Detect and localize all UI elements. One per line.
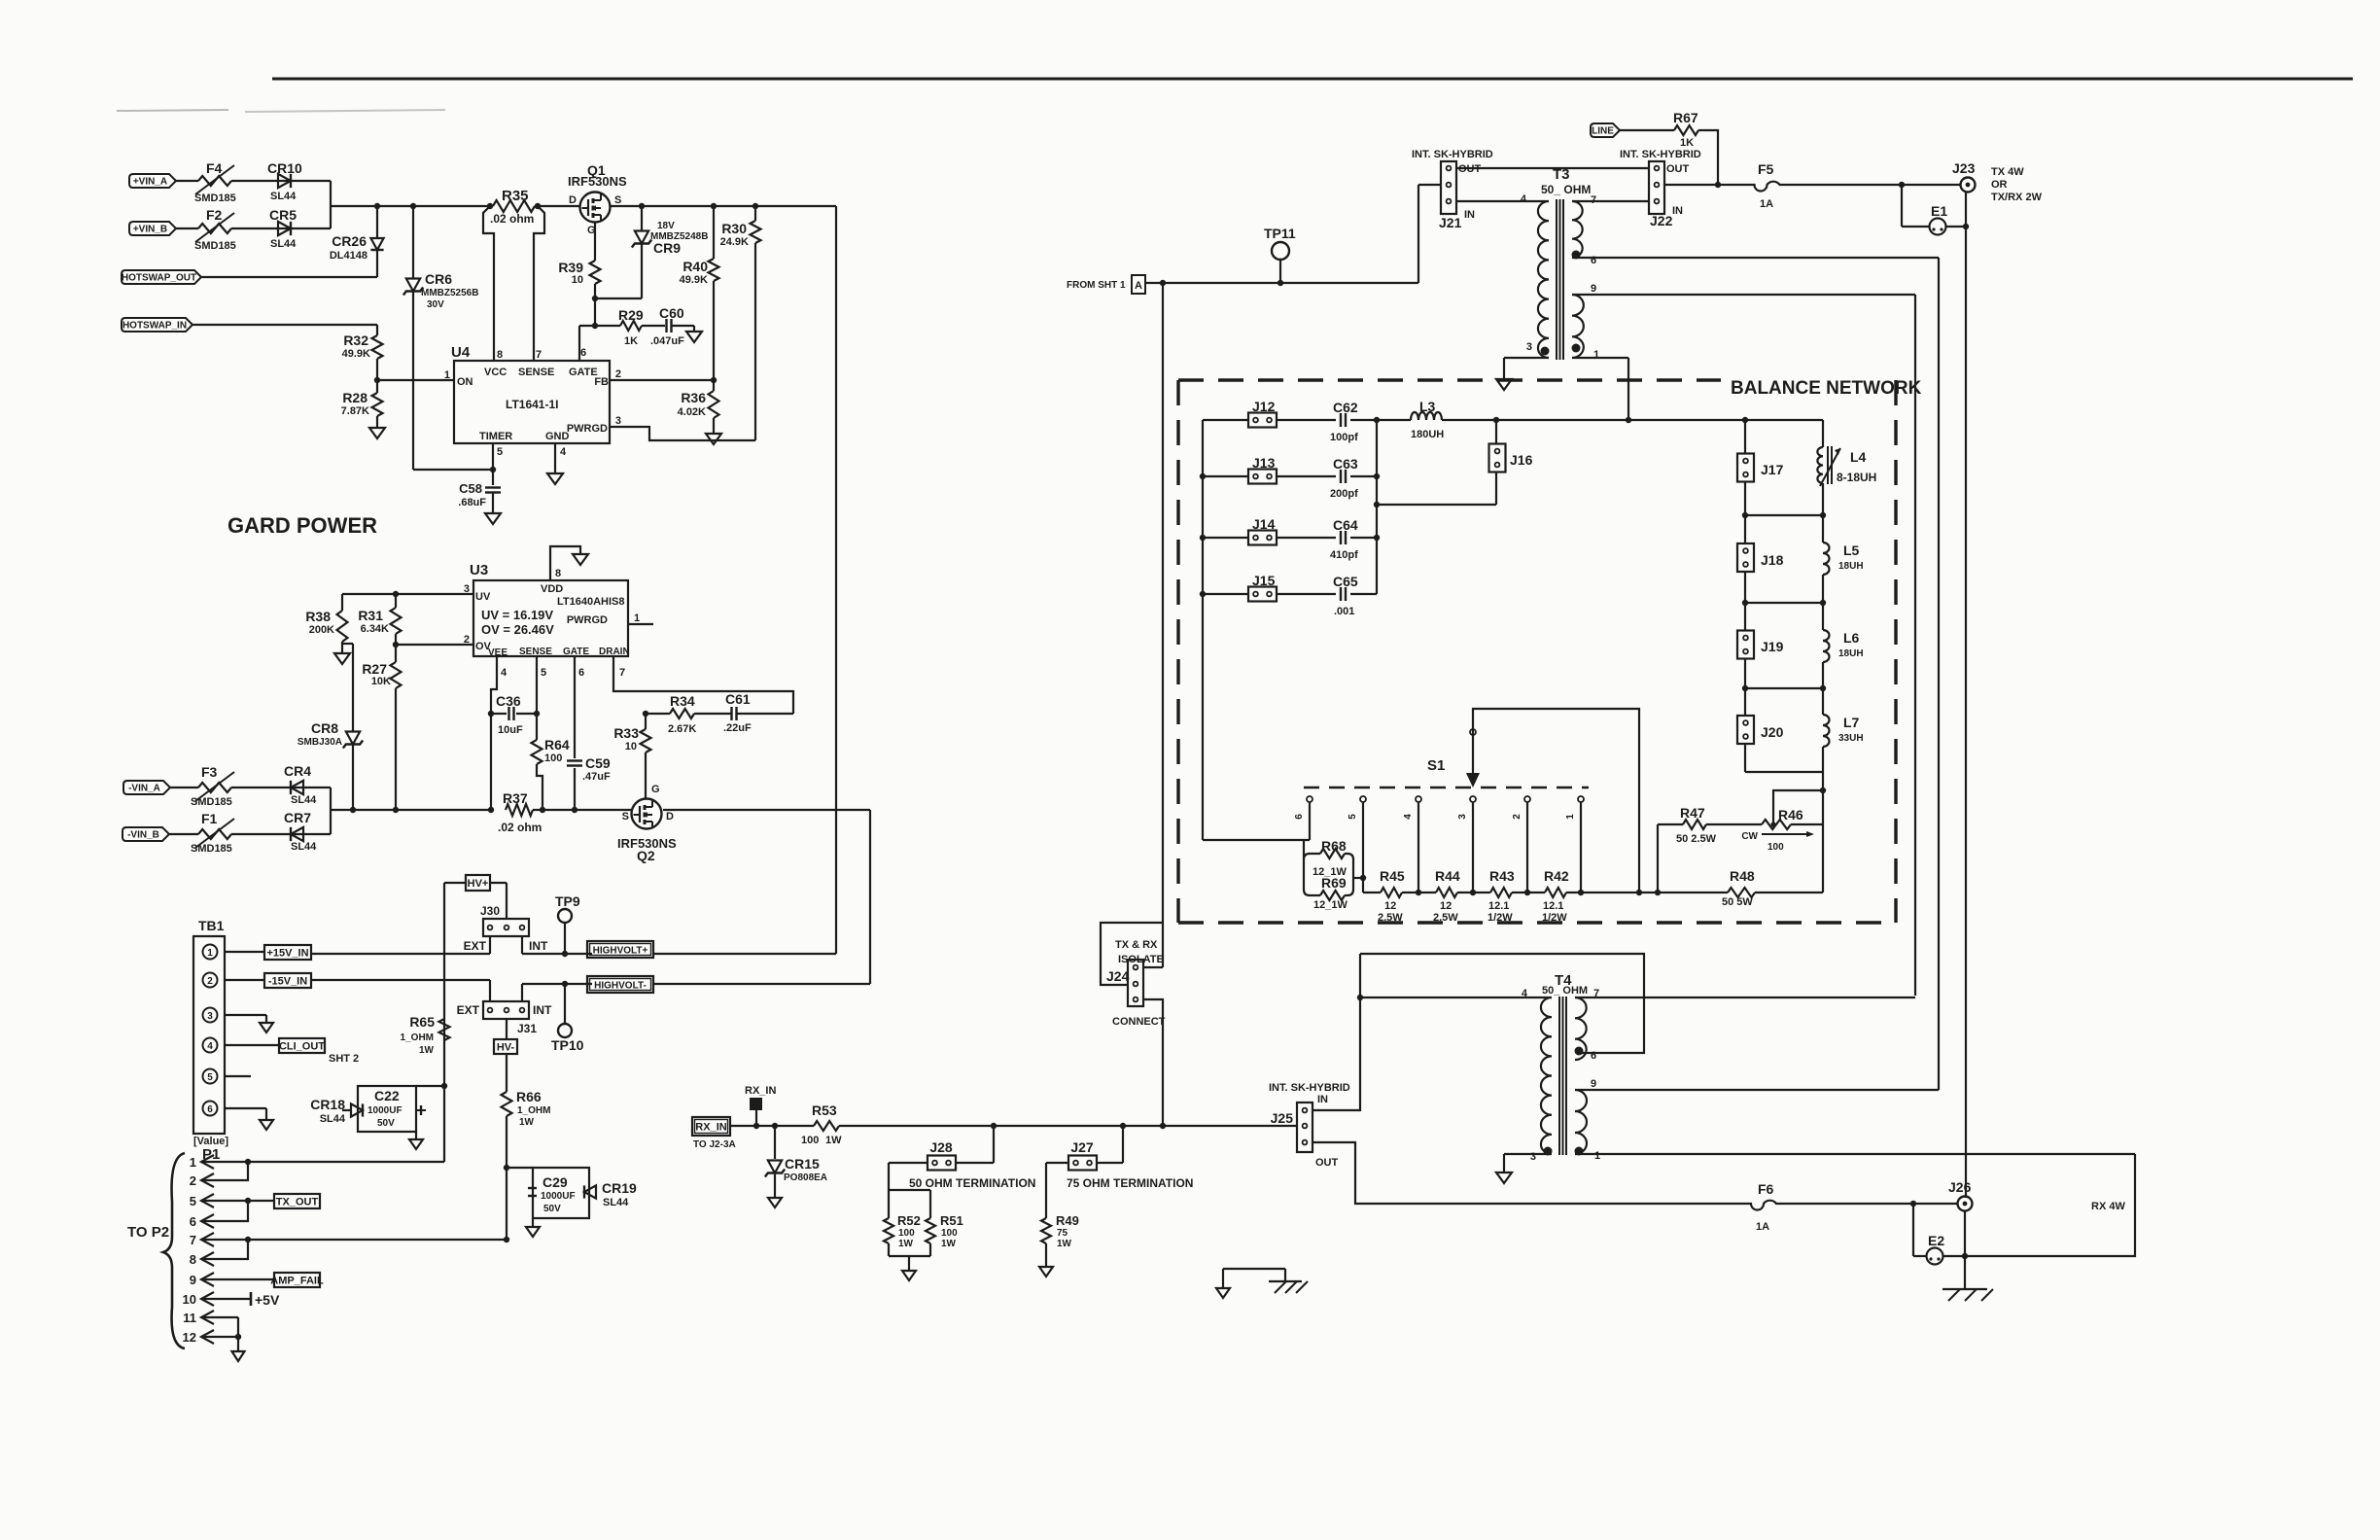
net label HV- (506, 1019, 507, 1039)
svg-text:11: 11 (183, 1311, 196, 1325)
wire J25 OUT to F6 (1312, 1142, 1750, 1204)
svg-text:J21: J21 (1439, 215, 1462, 230)
svg-text:2: 2 (1512, 814, 1522, 820)
svg-text:OUT: OUT (1315, 1157, 1339, 1169)
svg-text:R67: R67 (1673, 110, 1698, 125)
svg-text:FB: FB (594, 376, 609, 388)
svg-text:4.02K: 4.02K (678, 406, 706, 418)
svg-text:TX & RX: TX & RX (1115, 939, 1158, 951)
svg-text:F6: F6 (1758, 1181, 1774, 1197)
svg-text:4: 4 (560, 446, 567, 458)
svg-text:CLI_OUT: CLI_OUT (279, 1041, 325, 1053)
svg-text:CR26: CR26 (332, 233, 367, 249)
ground chassis (1942, 1288, 1987, 1290)
wire (672, 325, 694, 327)
wire T4 pin6 loop (1360, 954, 1644, 1053)
svg-text:1000UF: 1000UF (541, 1191, 576, 1202)
wire J21 IN to T3 pin4 (1456, 200, 1545, 202)
svg-text:1W: 1W (941, 1239, 957, 1249)
svg-text:5: 5 (541, 667, 546, 679)
svg-text:OR: OR (1991, 179, 2008, 191)
svg-text:R28: R28 (342, 390, 367, 405)
diode CR10 (278, 180, 331, 182)
top border rule (272, 78, 2353, 81)
wire pin2 / net label -15V_IN (225, 979, 264, 981)
svg-text:6: 6 (578, 667, 584, 679)
svg-text:1K: 1K (624, 335, 638, 347)
svg-text:HV+: HV+ (468, 878, 489, 890)
fuse F5 (1753, 182, 1781, 192)
svg-text:12.1: 12.1 (1488, 900, 1509, 912)
wire UV pin3 (342, 593, 473, 595)
ground (485, 513, 501, 524)
wire (231, 180, 278, 182)
svg-text:TP10: TP10 (551, 1037, 584, 1053)
svg-text:410pf: 410pf (1330, 549, 1358, 561)
wire T4 pin1 loop (1965, 1154, 2135, 1256)
svg-text:+15V_IN: +15V_IN (266, 948, 308, 960)
wire HV+ left down (444, 882, 466, 884)
svg-text:1000UF: 1000UF (367, 1105, 402, 1116)
wire (642, 325, 665, 327)
svg-text:+VIN_B: +VIN_B (133, 225, 167, 235)
svg-text:C59: C59 (585, 755, 611, 771)
resistor R31 (391, 608, 402, 634)
wire chain bottom (1745, 771, 1823, 773)
jumper J31 (483, 1001, 529, 1019)
svg-text:GATE: GATE (563, 647, 589, 657)
wire joining VIN_A/VIN_B (330, 181, 332, 228)
jumper J17 (1744, 420, 1746, 454)
svg-text:CR4: CR4 (284, 763, 311, 779)
resistor R49 (1041, 1218, 1051, 1243)
wire to F5 (1718, 184, 1753, 186)
resistor R30 (754, 206, 756, 221)
capacitor C29 w/ diode CR19 (507, 1167, 533, 1169)
resistor R45 (1363, 892, 1381, 893)
wire +V vertical to HIGHVOLT+ (835, 206, 837, 954)
svg-text:GND: GND (545, 431, 570, 442)
svg-text:200pf: 200pf (1330, 488, 1358, 500)
svg-text:J25: J25 (1271, 1110, 1294, 1126)
svg-text:J28: J28 (929, 1139, 953, 1155)
svg-text:R43: R43 (1489, 868, 1515, 884)
svg-text:RX_IN: RX_IN (745, 1085, 776, 1097)
svg-text:100: 100 (898, 1228, 915, 1239)
connector E1 (1901, 185, 1903, 227)
pin 6 (1572, 251, 1581, 260)
svg-text:CW: CW (1741, 831, 1758, 842)
svg-text:200K: 200K (309, 624, 334, 636)
svg-text:1W: 1W (419, 1045, 435, 1056)
svg-text:ON: ON (457, 376, 473, 388)
svg-text:.47uF: .47uF (582, 771, 611, 783)
svg-text:CR8: CR8 (311, 720, 338, 736)
svg-text:D: D (569, 194, 577, 206)
svg-text:1: 1 (634, 612, 640, 624)
wire -V vertical to HIGHVOLT- (869, 810, 871, 984)
svg-text:4: 4 (1522, 988, 1528, 999)
jumper J27 75 ohm termination (1120, 1123, 1126, 1129)
svg-text:1W: 1W (825, 1135, 842, 1146)
svg-text:SL44: SL44 (320, 1113, 346, 1125)
ground pair near T4 (1223, 1268, 1285, 1270)
svg-text:R44: R44 (1435, 868, 1460, 884)
svg-text:1W: 1W (1057, 1239, 1072, 1249)
svg-text:J17: J17 (1761, 462, 1784, 477)
resistor R64 (532, 740, 542, 764)
svg-text:GARD POWER: GARD POWER (227, 513, 377, 538)
ground (369, 428, 385, 438)
svg-text:C61: C61 (725, 691, 751, 707)
zener CR9 (641, 206, 643, 230)
svg-text:C29: C29 (542, 1174, 568, 1190)
wire GATE pin6 / capacitor C59 (574, 656, 576, 758)
wire pin1 / net label +15V_IN (225, 951, 264, 953)
svg-text:J13: J13 (1252, 455, 1276, 471)
wire row J13 (1203, 475, 1248, 477)
wire R29 node (579, 325, 620, 327)
ground (232, 1351, 245, 1361)
svg-text:R69: R69 (1321, 875, 1347, 891)
net label +VIN_A (129, 174, 176, 188)
svg-text:R30: R30 (721, 221, 747, 236)
resistor R53 (814, 1121, 839, 1131)
svg-text:TB1: TB1 (198, 918, 225, 933)
svg-text:10uF: 10uF (498, 724, 523, 736)
svg-text:SL44: SL44 (603, 1197, 629, 1208)
svg-text:VEE: VEE (488, 647, 507, 658)
wire (176, 227, 198, 229)
wire INT leg to HIGHVOLT- (521, 984, 523, 1001)
fuse F2 (198, 224, 231, 233)
svg-text:J24: J24 (1106, 968, 1130, 984)
svg-text:2: 2 (464, 634, 470, 646)
svg-text:SMD185: SMD185 (191, 796, 232, 808)
ground (573, 554, 588, 565)
svg-text:8: 8 (497, 349, 503, 361)
svg-text:5: 5 (1347, 814, 1358, 820)
svg-text:.02 ohm: .02 ohm (490, 212, 534, 226)
switch S1 contact 3 (1470, 796, 1476, 802)
svg-text:3: 3 (207, 1011, 213, 1022)
wire TIMER / capacitor C58 (492, 443, 494, 485)
pin 7 (1572, 200, 1649, 202)
ground (686, 332, 702, 342)
wire (231, 833, 291, 835)
svg-text:CR18: CR18 (310, 1097, 345, 1112)
wire cap bus vertical (1376, 420, 1378, 594)
test point TP11 (1272, 242, 1289, 260)
svg-text:9: 9 (1591, 1078, 1596, 1090)
svg-text:HIGHVOLT+: HIGHVOLT+ (593, 946, 648, 957)
svg-text:PWRGD: PWRGD (567, 614, 608, 626)
resistor R47 (1655, 890, 1661, 895)
svg-text:J30: J30 (480, 904, 500, 918)
svg-text:-15V_IN: -15V_IN (268, 976, 307, 988)
wire OV pin2 (396, 644, 473, 646)
svg-text:CR9: CR9 (653, 240, 681, 256)
svg-text:SL44: SL44 (270, 238, 297, 250)
wire J24 top pin (1143, 966, 1163, 968)
svg-text:24.9K: 24.9K (720, 236, 749, 248)
svg-text:1: 1 (1565, 814, 1576, 820)
svg-text:6: 6 (1294, 814, 1305, 820)
svg-text:R52: R52 (897, 1213, 921, 1228)
svg-text:R31: R31 (358, 608, 383, 623)
svg-text:TX/RX 2W: TX/RX 2W (1991, 192, 2043, 203)
resistor R66 (506, 1054, 507, 1092)
wire R67 to J22 center (1664, 130, 1718, 185)
svg-text:3: 3 (615, 415, 621, 427)
svg-text:7: 7 (1591, 194, 1596, 206)
inductor L3 (1411, 412, 1442, 420)
wire (231, 787, 291, 788)
wire P1 pin5 / net label TX_OUT (201, 1200, 274, 1202)
svg-text:R29: R29 (618, 307, 644, 323)
svg-text:R40: R40 (682, 259, 708, 274)
net label RX_IN boxed (692, 1117, 730, 1136)
svg-text:R51: R51 (940, 1213, 963, 1228)
svg-text:8: 8 (555, 568, 561, 579)
svg-text:INT: INT (533, 1003, 552, 1017)
svg-text:R27: R27 (362, 661, 387, 677)
wire to J21 (1417, 185, 1419, 283)
svg-text:2: 2 (190, 1173, 196, 1188)
connector J23 (1961, 178, 1976, 192)
wire junction row (1745, 514, 1823, 516)
svg-text:DL4148: DL4148 (330, 250, 367, 262)
wire RX line (730, 1125, 814, 1127)
capacitor C60 (665, 319, 667, 332)
svg-text:6: 6 (1591, 1050, 1596, 1062)
connector J26 (1958, 1197, 1973, 1211)
svg-text:6: 6 (1591, 255, 1596, 266)
wire (653, 953, 836, 955)
transistor Q1 IRF530NS (580, 192, 611, 223)
switch S1 contact 5 (1360, 796, 1366, 802)
svg-text:SMD185: SMD185 (194, 240, 236, 252)
wire junction row (1745, 687, 1823, 689)
wire contact 3 (1472, 802, 1474, 892)
svg-text:50 OHM TERMINATION: 50 OHM TERMINATION (909, 1176, 1035, 1190)
svg-text:50_ OHM: 50_ OHM (1541, 183, 1591, 196)
svg-text:-VIN_B: -VIN_B (127, 830, 159, 841)
resistor R48 (1658, 892, 1728, 893)
svg-text:1A: 1A (1756, 1221, 1769, 1233)
wire row J12 (1203, 419, 1248, 421)
wire (888, 1243, 890, 1256)
svg-text:J27: J27 (1070, 1139, 1094, 1155)
svg-text:4: 4 (1521, 193, 1527, 205)
jumper J15 (1248, 587, 1277, 602)
svg-text:R47: R47 (1680, 805, 1705, 821)
connector E2 (1912, 1204, 1914, 1256)
wire FB (610, 379, 714, 381)
svg-text:SHT 2: SHT 2 (329, 1053, 359, 1065)
resistor R37 current sense (506, 804, 533, 816)
svg-text:OV = 26.46V: OV = 26.46V (481, 622, 554, 637)
svg-text:1A: 1A (1760, 198, 1773, 210)
ground (260, 1120, 273, 1130)
svg-text:RX_IN: RX_IN (695, 1122, 726, 1134)
svg-text:T3: T3 (1553, 166, 1570, 183)
svg-text:R46: R46 (1778, 807, 1803, 822)
resistor R52 (884, 1218, 893, 1243)
capacitor C62 (1340, 413, 1342, 427)
svg-text:C22: C22 (374, 1088, 400, 1103)
svg-text:9: 9 (190, 1273, 196, 1287)
inductor L6 (1823, 630, 1830, 662)
svg-text:CR6: CR6 (425, 271, 452, 287)
svg-text:1: 1 (207, 948, 213, 959)
wire pin3 to ground (225, 1014, 266, 1016)
svg-text:.001: .001 (1334, 606, 1354, 617)
svg-text:J20: J20 (1761, 724, 1784, 740)
svg-text:50V: 50V (543, 1204, 561, 1214)
wire J25 IN to T4 (1312, 954, 1360, 1110)
svg-text:3: 3 (464, 583, 470, 595)
svg-text:S1: S1 (1427, 757, 1445, 774)
jumper J14 (1248, 531, 1277, 545)
svg-text:R68: R68 (1321, 838, 1347, 854)
wire (1145, 282, 1418, 284)
resistor R28 (372, 393, 383, 416)
op-amp U3 LT1640AHIS8 controller (473, 580, 628, 656)
svg-text:HIGHVOLT-: HIGHVOLT- (594, 981, 647, 992)
wire (170, 787, 198, 788)
switch S1 contact 4 (1416, 796, 1421, 802)
diode CR26 (376, 206, 378, 238)
fuse F1 (198, 829, 231, 839)
svg-text:L5: L5 (1843, 542, 1860, 558)
svg-text:.02 ohm: .02 ohm (498, 821, 542, 834)
svg-text:OUT: OUT (1666, 163, 1690, 175)
wire to L4 top (1822, 420, 1824, 447)
svg-text:1: 1 (1594, 1150, 1600, 1162)
svg-text:9: 9 (1591, 283, 1596, 295)
wire left vertical (1202, 420, 1204, 840)
wire (201, 276, 377, 278)
wire VDD pin8 to ground (550, 546, 580, 580)
svg-text:8-18UH: 8-18UH (1837, 471, 1876, 484)
svg-text:SMD185: SMD185 (194, 192, 236, 204)
wire (1620, 129, 1674, 131)
svg-text:49.9K: 49.9K (342, 348, 370, 360)
pin 1 (1572, 344, 1581, 353)
wire SENSE pin5 (536, 656, 538, 740)
svg-text:C63: C63 (1333, 456, 1358, 472)
svg-text:1: 1 (1593, 349, 1599, 361)
svg-text:100: 100 (1767, 842, 1784, 853)
pin 6 (1575, 1047, 1584, 1056)
wire P1 pin8 (201, 1240, 248, 1259)
wire contact 2 (1526, 802, 1528, 892)
svg-text:5: 5 (190, 1194, 196, 1208)
svg-text:6: 6 (580, 347, 586, 359)
diode CR8 SMBJ30A (352, 644, 354, 731)
wire J21 OUT to J22 OUT (1456, 167, 1649, 169)
svg-text:PO808EA: PO808EA (784, 1172, 827, 1183)
svg-text:SENSE: SENSE (518, 367, 554, 378)
wire T3 pin9 vertical to T4 pin7 (1914, 295, 1916, 996)
jumper J13 (1248, 470, 1277, 484)
wire to R52/R51 (889, 1162, 927, 1164)
svg-text:12_1W: 12_1W (1313, 899, 1347, 911)
svg-text:SL44: SL44 (270, 191, 297, 202)
resistor R67 (1674, 125, 1698, 135)
svg-text:1W: 1W (898, 1239, 914, 1249)
switch S1 contact 1 (1578, 796, 1584, 802)
svg-text:1: 1 (190, 1155, 196, 1170)
svg-text:CONNECT: CONNECT (1112, 1016, 1166, 1028)
svg-text:S: S (622, 811, 629, 822)
svg-text:50 2.5W: 50 2.5W (1676, 833, 1717, 845)
svg-text:L7: L7 (1843, 715, 1860, 730)
svg-text:J14: J14 (1252, 516, 1276, 532)
svg-text:1/2W: 1/2W (1542, 912, 1567, 924)
svg-text:1W: 1W (519, 1117, 535, 1128)
wire contact 6 (1309, 802, 1311, 840)
wire PWRGD (610, 427, 755, 440)
wire junction row (1745, 602, 1823, 604)
wire (176, 180, 198, 182)
wire INT leg to HIGHVOLT+ (521, 936, 523, 954)
svg-text:R39: R39 (558, 260, 583, 275)
svg-text:5: 5 (207, 1072, 213, 1083)
ground (415, 1132, 417, 1139)
svg-text:.22uF: .22uF (723, 722, 752, 734)
diode CR7 (291, 833, 331, 835)
svg-text:R65: R65 (409, 1014, 435, 1030)
net label HV+ (466, 875, 490, 891)
svg-text:HOTSWAP_IN: HOTSWAP_IN (122, 321, 187, 332)
svg-text:L3: L3 (1419, 399, 1436, 414)
svg-text:HV-: HV- (497, 1042, 515, 1054)
svg-text:12: 12 (1440, 900, 1452, 912)
net label HOTSWAP_OUT (122, 270, 201, 284)
svg-text:TX_OUT: TX_OUT (276, 1197, 319, 1208)
diode CR15 PO808EA (772, 1123, 778, 1129)
pin 9 (1572, 294, 1915, 296)
wire to R49 (1046, 1162, 1068, 1164)
resistor R33 (643, 711, 648, 717)
svg-text:TIMER: TIMER (479, 431, 512, 442)
svg-text:3: 3 (1526, 341, 1532, 353)
capacitor C64 (1340, 531, 1342, 544)
wire S1 wiper feed (1473, 709, 1639, 892)
ground (532, 1218, 534, 1227)
wire P1 pin11/12 to ground (201, 1316, 238, 1318)
fuse F6 (1750, 1201, 1777, 1210)
capacitor C61 (694, 713, 731, 715)
ground (334, 653, 350, 664)
wire T4 pin4 (1360, 997, 1545, 998)
test point TP9 (558, 909, 572, 923)
svg-text:2.67K: 2.67K (668, 723, 696, 735)
svg-text:TP11: TP11 (1264, 226, 1296, 241)
svg-text:INT. SK-HYBRID: INT. SK-HYBRID (1269, 1082, 1350, 1094)
pin 7 (1575, 997, 1915, 998)
svg-text:R35: R35 (502, 188, 529, 204)
jumper J30 (483, 919, 529, 936)
net label HIGHVOLT+ (587, 941, 653, 958)
jumper J16 (1495, 420, 1497, 443)
pin 1 (1575, 1147, 1584, 1156)
svg-text:6.34K: 6.34K (361, 623, 389, 635)
resistor R34 (646, 713, 670, 715)
svg-text:1/2W: 1/2W (1487, 912, 1513, 924)
